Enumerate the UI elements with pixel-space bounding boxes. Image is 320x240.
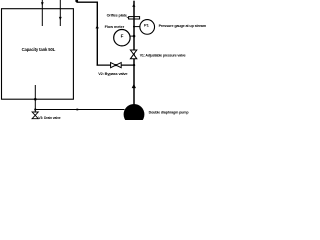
bypass riser vertical [96, 2, 98, 66]
orifice plate symbol [129, 17, 140, 19]
svg-text:Capacity tank 50L: Capacity tank 50L [22, 47, 56, 52]
valve V2 center [115, 64, 117, 66]
inlet line A [41, 0, 43, 26]
svg-text:Pressure gauge at up stream: Pressure gauge at up stream [159, 24, 207, 28]
valve V1 (adjustable pressure valve) [130, 50, 136, 59]
svg-text:Flow meter: Flow meter [105, 25, 125, 29]
flow meter junction dot [133, 35, 136, 38]
suction pipe right arrow [77, 108, 81, 110]
suction pipe horizontal [35, 109, 124, 111]
svg-text:Double diaphragm pump: Double diaphragm pump [149, 110, 190, 114]
discharge up arrow [132, 84, 136, 88]
tank bottom junction dot [34, 98, 37, 101]
pressure gauge stub [134, 26, 140, 28]
pressure gauge P1 [140, 20, 155, 35]
svg-text:V3: Drain valve: V3: Drain valve [38, 116, 60, 120]
return pipe top horizontal [77, 1, 98, 3]
svg-text:V2: Bypass valve: V2: Bypass valve [98, 71, 128, 76]
flow meter F circle [114, 30, 130, 46]
pump circle (double diaphragm pump) [124, 104, 145, 125]
valve V3 (drain valve) [32, 112, 38, 119]
drain dip tube [34, 85, 36, 112]
inlet line B [59, 0, 61, 26]
main vertical pipe [133, 1, 135, 105]
inlet arrow A [41, 2, 44, 6]
svg-text:Orifice plate: Orifice plate [107, 13, 127, 17]
bypass tee junction dot [133, 64, 135, 66]
valve V2 (bypass valve) [111, 63, 122, 68]
suction tee junction dot [34, 108, 36, 110]
bypass riser up arrow [96, 25, 99, 28]
inlet arrow B [59, 17, 62, 21]
svg-text:F: F [121, 33, 124, 38]
svg-text:V1: Adjustable pressure valve: V1: Adjustable pressure valve [140, 53, 186, 57]
orifice label leader [127, 17, 129, 19]
capacity tank outline [2, 9, 74, 100]
flow meter stub [130, 35, 134, 37]
svg-text:P1: P1 [144, 23, 150, 28]
main pipe top up arrow [132, 4, 135, 7]
bypass horizontal line [97, 64, 135, 66]
return pipe end dot [75, 0, 78, 2]
